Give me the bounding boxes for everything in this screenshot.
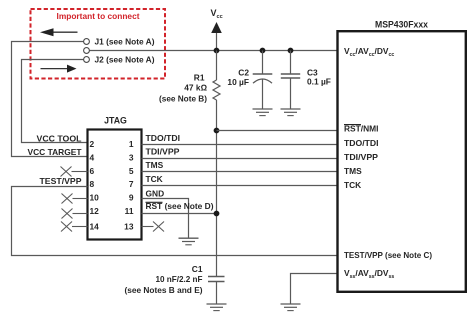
arrow left (40, 28, 78, 36)
ground below C2 (253, 109, 273, 116)
svg-text:13: 13 (124, 222, 134, 232)
pin label RST/NMI with overline (344, 124, 378, 134)
arrow right (41, 65, 77, 73)
svg-text:TCK: TCK (344, 180, 361, 190)
svg-text:VCC TARGET: VCC TARGET (28, 147, 83, 157)
svg-text:JTAG: JTAG (104, 116, 127, 126)
svg-text:10 µF: 10 µF (227, 77, 249, 87)
svg-text:(see Notes B and E): (see Notes B and E) (125, 285, 203, 295)
wire TDI/VPP (142, 158, 338, 160)
capacitor C2 (253, 51, 273, 109)
svg-text:11: 11 (125, 206, 134, 216)
jumper J2 pin circle (84, 57, 90, 63)
svg-text:C1: C1 (192, 264, 203, 274)
ground below GND pin (179, 238, 199, 245)
svg-text:3: 3 (129, 153, 134, 163)
wire Vcc rail (89, 50, 337, 52)
IC MSP430Fxxx box (338, 31, 466, 292)
node C3 junction (288, 48, 294, 54)
wire J1 to VCC TARGET (12, 42, 88, 157)
wire TMS (142, 171, 338, 173)
svg-text:6: 6 (90, 166, 95, 176)
node C2 junction (260, 48, 266, 54)
label RST (see Note D) with overline (146, 201, 214, 211)
svg-text:J2 (see Note A): J2 (see Note A) (95, 55, 155, 65)
pin numbers right column (124, 139, 134, 232)
wire GND from pin 9 (142, 199, 189, 238)
no-connect X pin 10 (62, 194, 88, 204)
no-connect X pin 12 (62, 209, 88, 219)
svg-text:14: 14 (90, 222, 100, 232)
svg-text:9: 9 (129, 192, 134, 202)
svg-text:VCC TOOL: VCC TOOL (37, 133, 82, 143)
svg-text:7: 7 (129, 179, 134, 189)
svg-text:8: 8 (90, 179, 95, 189)
svg-text:Important to connect: Important to connect (57, 11, 140, 21)
svg-text:TMS: TMS (344, 166, 362, 176)
label C1 value (125, 264, 203, 295)
svg-text:TDI/VPP: TDI/VPP (344, 152, 378, 162)
svg-text:TCK: TCK (146, 174, 163, 184)
wire TEST/VPP net (12, 187, 338, 256)
svg-text:4: 4 (90, 153, 95, 163)
svg-text:MSP430Fxxx: MSP430Fxxx (375, 19, 428, 29)
svg-text:(see Note B): (see Note B) (159, 93, 207, 103)
svg-text:TDI/VPP: TDI/VPP (146, 147, 180, 157)
label C3 value (307, 67, 331, 86)
node Vcc junction (214, 48, 220, 54)
svg-text:10 nF/2.2 nF: 10 nF/2.2 nF (156, 274, 203, 284)
Vcc supply symbol (211, 22, 222, 51)
wire TCK (142, 185, 338, 187)
pin numbers left column (90, 139, 100, 232)
svg-text:47 kΩ: 47 kΩ (184, 83, 207, 93)
jumper J1 pin circle (84, 39, 90, 45)
JTAG connector box (88, 130, 142, 240)
node RST/NMI junction (214, 128, 220, 134)
no-connect X pin 13 (142, 222, 165, 232)
capacitor C1 (208, 277, 225, 304)
svg-text:R1: R1 (194, 72, 205, 82)
wire RST/NMI to MSP430 (217, 130, 338, 132)
node RST junction (214, 211, 220, 217)
svg-text:TDO/TDI: TDO/TDI (344, 138, 379, 148)
no-connect X pin 6 (61, 167, 88, 177)
wire RST vertical net (216, 100, 218, 277)
svg-text:TEST/VPP (see Note C): TEST/VPP (see Note C) (344, 250, 432, 260)
svg-text:1: 1 (129, 139, 134, 149)
ground below C3 (281, 109, 301, 116)
label R1 value (159, 72, 208, 103)
svg-text:GND: GND (146, 188, 165, 198)
capacitor C3 (281, 51, 300, 109)
ground below Vss (281, 304, 301, 311)
jumper common pin circle (84, 48, 90, 54)
resistor R1 (213, 51, 220, 101)
svg-text:0.1 µF: 0.1 µF (307, 77, 331, 87)
svg-text:2: 2 (90, 139, 95, 149)
svg-text:TEST/VPP: TEST/VPP (40, 176, 82, 186)
wire TDO/TDI (142, 144, 338, 146)
svg-text:J1 (see Note A): J1 (see Note A) (95, 36, 155, 46)
red important-to-connect box (31, 9, 166, 79)
svg-text:5: 5 (129, 166, 134, 176)
no-connect X pin 14 (61, 222, 88, 232)
svg-text:12: 12 (90, 206, 100, 216)
ground below C1 (207, 304, 227, 311)
wire J2 to VCC TOOL (22, 60, 88, 143)
svg-text:TDO/TDI: TDO/TDI (146, 133, 181, 143)
svg-text:10: 10 (90, 192, 100, 202)
label C2 value (227, 68, 249, 87)
wire RST from pin 11 (142, 213, 217, 215)
svg-text:TMS: TMS (146, 160, 164, 170)
wire Vss to ground (291, 274, 338, 304)
